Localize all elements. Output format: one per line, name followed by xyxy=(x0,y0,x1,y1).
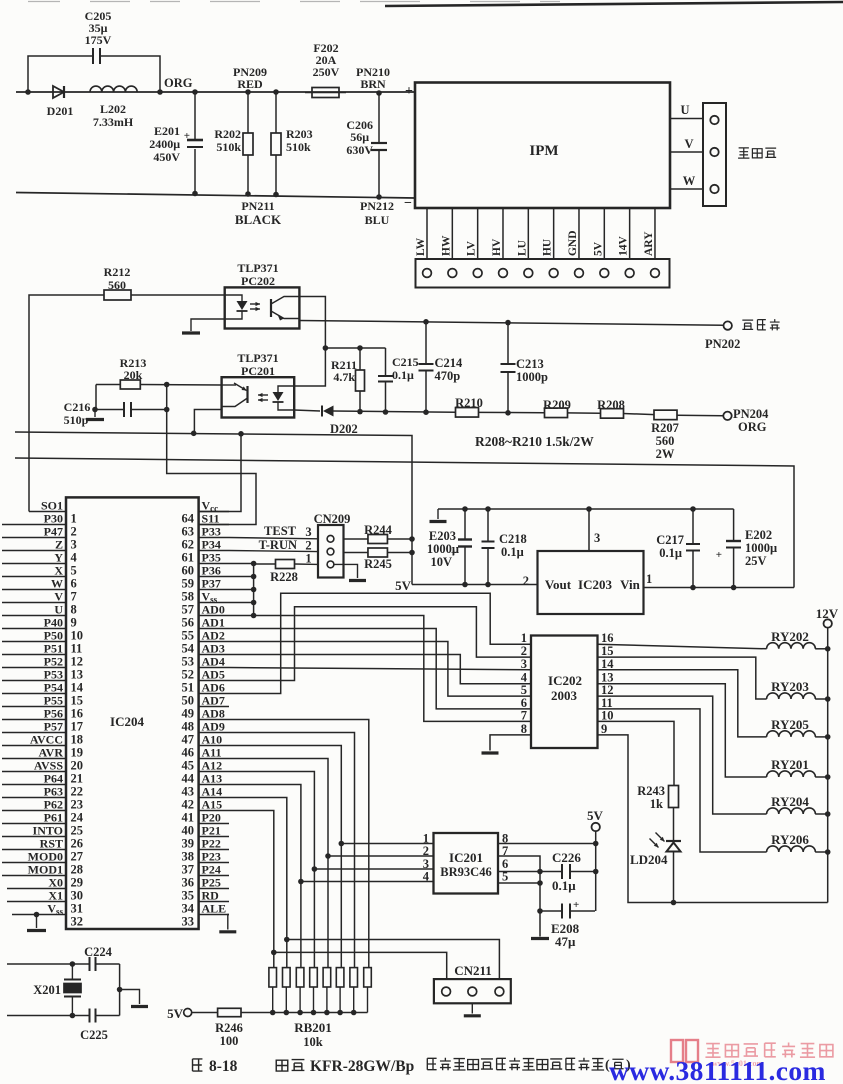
svg-text:S11: S11 xyxy=(202,512,220,526)
svg-text:C216: C216 xyxy=(64,400,91,414)
svg-text:IC204: IC204 xyxy=(110,714,144,729)
svg-text:PN212: PN212 xyxy=(360,199,394,213)
svg-text:C226: C226 xyxy=(552,850,581,865)
svg-text:P47: P47 xyxy=(44,525,63,539)
svg-text:HV: HV xyxy=(491,238,503,256)
svg-text:510p: 510p xyxy=(64,413,89,427)
svg-text:58: 58 xyxy=(182,590,195,604)
svg-text:47μ: 47μ xyxy=(555,934,576,949)
svg-text:ORG: ORG xyxy=(164,76,193,90)
svg-text:V: V xyxy=(54,590,63,604)
svg-text:10: 10 xyxy=(71,629,84,643)
svg-text:GND: GND xyxy=(567,230,579,256)
svg-text:C214: C214 xyxy=(435,356,464,370)
svg-text:HW: HW xyxy=(440,235,452,256)
svg-text:P64: P64 xyxy=(44,772,63,786)
svg-text:L202: L202 xyxy=(100,102,126,116)
svg-text:34: 34 xyxy=(182,902,195,916)
svg-text:470p: 470p xyxy=(435,369,461,383)
svg-text:3: 3 xyxy=(305,525,311,539)
svg-text:P54: P54 xyxy=(44,681,63,695)
svg-text:450V: 450V xyxy=(153,150,180,164)
svg-text:20: 20 xyxy=(71,759,84,773)
svg-text:INTO: INTO xyxy=(33,824,63,838)
svg-text:29: 29 xyxy=(71,876,84,890)
svg-text:21: 21 xyxy=(71,772,84,786)
svg-text:P23: P23 xyxy=(202,850,221,864)
svg-text:IC202: IC202 xyxy=(548,673,582,688)
svg-text:2: 2 xyxy=(71,525,77,539)
svg-text:250V: 250V xyxy=(313,65,340,79)
svg-text:R208: R208 xyxy=(597,398,625,412)
svg-text:16: 16 xyxy=(71,707,84,721)
svg-text:X: X xyxy=(54,564,63,578)
svg-text:P21: P21 xyxy=(202,824,221,838)
svg-text:0.1μ: 0.1μ xyxy=(659,546,682,560)
svg-text:52: 52 xyxy=(182,668,195,682)
svg-text:48: 48 xyxy=(182,720,195,734)
svg-text:37: 37 xyxy=(182,863,195,877)
svg-text:24: 24 xyxy=(71,811,84,825)
svg-text:LW: LW xyxy=(415,237,427,256)
svg-text:9: 9 xyxy=(71,616,77,630)
svg-text:P20: P20 xyxy=(202,811,221,825)
svg-text:C215: C215 xyxy=(392,355,419,369)
svg-text:7: 7 xyxy=(521,708,527,722)
svg-text:33: 33 xyxy=(182,915,195,929)
svg-text:P51: P51 xyxy=(44,642,63,656)
svg-text:0.1μ: 0.1μ xyxy=(501,545,524,559)
svg-text:2003: 2003 xyxy=(551,688,578,703)
svg-text:40: 40 xyxy=(182,824,195,838)
svg-text:PC202: PC202 xyxy=(241,274,275,288)
svg-text:3: 3 xyxy=(594,531,600,545)
svg-text:30: 30 xyxy=(71,889,84,903)
svg-text:4: 4 xyxy=(71,551,78,565)
svg-text:CN211: CN211 xyxy=(454,963,492,978)
svg-text:P63: P63 xyxy=(44,785,63,799)
svg-text:35: 35 xyxy=(182,889,195,903)
svg-text:P61: P61 xyxy=(44,811,63,825)
svg-text:2: 2 xyxy=(523,574,529,588)
svg-text:TLP371: TLP371 xyxy=(237,351,278,365)
svg-text:25V: 25V xyxy=(745,554,767,568)
svg-text:14: 14 xyxy=(601,657,614,671)
svg-text:A10: A10 xyxy=(202,733,223,747)
svg-text:R246: R246 xyxy=(215,1021,243,1035)
svg-text:P50: P50 xyxy=(44,629,63,643)
svg-text:Vin: Vin xyxy=(620,577,641,592)
svg-text:V: V xyxy=(684,137,693,151)
svg-text:SO1: SO1 xyxy=(41,499,63,513)
svg-text:R203: R203 xyxy=(286,127,313,141)
svg-text:50: 50 xyxy=(182,694,195,708)
svg-text:45: 45 xyxy=(182,759,195,773)
svg-text:25: 25 xyxy=(71,824,84,838)
svg-text:P33: P33 xyxy=(202,525,221,539)
svg-text:IC201: IC201 xyxy=(449,850,483,865)
svg-text:P25: P25 xyxy=(202,876,221,890)
svg-text:C218: C218 xyxy=(499,532,527,546)
svg-text:PN202: PN202 xyxy=(705,337,740,351)
svg-text:LD204: LD204 xyxy=(630,852,668,867)
svg-text:A12: A12 xyxy=(202,759,223,773)
svg-text:8: 8 xyxy=(71,603,77,617)
svg-text:P35: P35 xyxy=(202,551,221,565)
svg-text:IPM: IPM xyxy=(529,143,558,159)
svg-text:1000μ: 1000μ xyxy=(427,542,459,556)
svg-text:100: 100 xyxy=(220,1034,239,1048)
svg-text:MOD1: MOD1 xyxy=(28,863,63,877)
svg-text:R207: R207 xyxy=(651,421,679,435)
svg-text:P52: P52 xyxy=(44,655,63,669)
svg-text:AD3: AD3 xyxy=(202,642,225,656)
svg-text:51: 51 xyxy=(182,681,195,695)
svg-text:47: 47 xyxy=(182,733,195,747)
svg-text:Z: Z xyxy=(55,538,63,552)
svg-text:64: 64 xyxy=(182,512,195,526)
svg-text:P24: P24 xyxy=(202,863,221,877)
svg-text:W: W xyxy=(683,174,696,188)
svg-text:AD5: AD5 xyxy=(202,668,225,682)
svg-text:W: W xyxy=(51,577,63,591)
svg-text:1000p: 1000p xyxy=(516,370,548,384)
svg-text:1: 1 xyxy=(521,631,527,645)
svg-text:31: 31 xyxy=(71,902,84,916)
svg-text:MOD0: MOD0 xyxy=(28,850,63,864)
svg-text:ALE: ALE xyxy=(202,902,227,916)
svg-text:RY206: RY206 xyxy=(771,832,809,847)
svg-text:12V: 12V xyxy=(816,606,839,621)
svg-text:560: 560 xyxy=(656,434,675,448)
svg-text:RY202: RY202 xyxy=(771,629,809,644)
svg-text:8-18: 8-18 xyxy=(209,1058,238,1075)
svg-text:1k: 1k xyxy=(650,797,663,811)
svg-text:R210: R210 xyxy=(455,396,483,410)
svg-text:20k: 20k xyxy=(124,368,143,382)
svg-text:P40: P40 xyxy=(44,616,63,630)
svg-text:3: 3 xyxy=(521,657,527,671)
svg-text:R245: R245 xyxy=(364,557,392,571)
svg-text:630V: 630V xyxy=(346,143,373,157)
svg-text:BLU: BLU xyxy=(365,213,390,227)
svg-text:39: 39 xyxy=(182,837,195,851)
svg-text:Vout: Vout xyxy=(545,577,572,592)
svg-text:TEST: TEST xyxy=(264,524,297,538)
svg-text:46: 46 xyxy=(182,746,195,760)
svg-text:E202: E202 xyxy=(745,528,772,542)
svg-text:P53: P53 xyxy=(44,668,63,682)
svg-text:C213: C213 xyxy=(516,357,544,371)
svg-text:5V: 5V xyxy=(592,241,604,256)
svg-text:R209: R209 xyxy=(543,398,571,412)
svg-text:BLACK: BLACK xyxy=(235,212,282,227)
svg-text:R208~R210 1.5k/2W: R208~R210 1.5k/2W xyxy=(475,434,594,449)
svg-text:Y: Y xyxy=(54,551,63,565)
svg-text:175V: 175V xyxy=(85,33,112,47)
svg-text:43: 43 xyxy=(182,785,195,799)
svg-text:P55: P55 xyxy=(44,694,63,708)
svg-text:AVR: AVR xyxy=(39,746,64,760)
svg-text:62: 62 xyxy=(182,538,195,552)
svg-text:63: 63 xyxy=(182,525,195,539)
svg-text:AD8: AD8 xyxy=(202,707,225,721)
svg-text:P57: P57 xyxy=(44,720,63,734)
svg-text:U: U xyxy=(54,603,63,617)
svg-text:AVCC: AVCC xyxy=(30,733,63,747)
svg-text:7: 7 xyxy=(71,590,77,604)
svg-text:56: 56 xyxy=(182,616,195,630)
svg-text:RD: RD xyxy=(202,889,220,903)
svg-text:IC203: IC203 xyxy=(578,577,612,592)
svg-text:T-RUN: T-RUN xyxy=(259,538,297,552)
svg-text:16: 16 xyxy=(601,631,614,645)
svg-text:6: 6 xyxy=(71,577,77,591)
svg-text:P56: P56 xyxy=(44,707,63,721)
svg-text:C225: C225 xyxy=(80,1028,108,1042)
svg-text:−: − xyxy=(404,196,412,211)
svg-text:RY205: RY205 xyxy=(771,717,809,732)
svg-text:AD4: AD4 xyxy=(202,655,225,669)
svg-text:2W: 2W xyxy=(656,447,675,461)
svg-text:41: 41 xyxy=(182,811,195,825)
svg-text:AD1: AD1 xyxy=(202,616,225,630)
svg-text:17: 17 xyxy=(71,720,84,734)
svg-text:ORG: ORG xyxy=(738,420,767,434)
svg-text:10k: 10k xyxy=(303,1035,323,1049)
svg-text:P34: P34 xyxy=(202,538,221,552)
svg-text:D202: D202 xyxy=(330,422,358,436)
svg-text:A13: A13 xyxy=(202,772,223,786)
svg-text:42: 42 xyxy=(182,798,195,812)
svg-text:ARY: ARY xyxy=(643,231,655,256)
svg-text:U: U xyxy=(680,103,689,117)
svg-text:RY204: RY204 xyxy=(771,794,809,809)
svg-text:E201: E201 xyxy=(154,124,180,138)
svg-text:28: 28 xyxy=(71,863,84,877)
svg-text:AVSS: AVSS xyxy=(34,759,63,773)
svg-text:15: 15 xyxy=(71,694,84,708)
svg-text:P62: P62 xyxy=(44,798,63,812)
svg-text:18: 18 xyxy=(71,733,84,747)
svg-text:44: 44 xyxy=(182,772,195,786)
svg-text:61: 61 xyxy=(182,551,195,565)
svg-text:PN211: PN211 xyxy=(241,199,274,213)
svg-text:P22: P22 xyxy=(202,837,221,851)
svg-text:38: 38 xyxy=(182,850,195,864)
svg-text:LV: LV xyxy=(466,240,478,256)
svg-text:HU: HU xyxy=(542,238,554,256)
svg-text:5: 5 xyxy=(71,564,77,578)
svg-text:X1: X1 xyxy=(48,889,63,903)
svg-text:C217: C217 xyxy=(656,533,684,547)
svg-text:11: 11 xyxy=(71,642,83,656)
svg-text:27: 27 xyxy=(71,850,84,864)
svg-text:E203: E203 xyxy=(429,529,456,543)
svg-text:56μ: 56μ xyxy=(350,130,369,144)
svg-text:14V: 14V xyxy=(618,236,630,257)
svg-text:X0: X0 xyxy=(48,876,63,890)
svg-text:26: 26 xyxy=(71,837,84,851)
svg-text:60: 60 xyxy=(182,564,195,578)
svg-text:59: 59 xyxy=(182,577,195,591)
svg-text:2: 2 xyxy=(305,539,311,553)
svg-text:AD7: AD7 xyxy=(202,694,225,708)
svg-text:32: 32 xyxy=(71,915,84,929)
svg-text:RB201: RB201 xyxy=(294,1020,332,1035)
svg-text:+: + xyxy=(184,130,190,142)
svg-text:10: 10 xyxy=(601,708,614,722)
svg-text:13: 13 xyxy=(71,668,84,682)
svg-text:A11: A11 xyxy=(202,746,222,760)
svg-text:R202: R202 xyxy=(214,127,241,141)
svg-text:0.1μ: 0.1μ xyxy=(552,878,576,893)
svg-text:12: 12 xyxy=(71,655,84,669)
svg-text:4.7k: 4.7k xyxy=(333,370,355,384)
svg-text:A14: A14 xyxy=(202,785,223,799)
svg-text:A15: A15 xyxy=(202,798,223,812)
svg-text:AD9: AD9 xyxy=(202,720,225,734)
svg-text:AD6: AD6 xyxy=(202,681,225,695)
svg-text:LU: LU xyxy=(516,239,528,256)
svg-text:+: + xyxy=(405,84,413,99)
svg-text:X201: X201 xyxy=(33,983,61,997)
svg-text:510k: 510k xyxy=(286,140,311,154)
svg-text:57: 57 xyxy=(182,603,195,617)
svg-text:CN209: CN209 xyxy=(314,512,351,526)
svg-text:1: 1 xyxy=(305,552,311,566)
svg-text:1000μ: 1000μ xyxy=(745,541,777,555)
svg-text:P30: P30 xyxy=(44,512,63,526)
svg-text:R244: R244 xyxy=(364,523,393,537)
svg-text:49: 49 xyxy=(182,707,195,721)
svg-text:23: 23 xyxy=(71,798,84,812)
svg-text:22: 22 xyxy=(71,785,84,799)
svg-text:1: 1 xyxy=(646,572,652,586)
svg-text:560: 560 xyxy=(108,278,126,292)
svg-text:+: + xyxy=(573,899,579,911)
svg-text:5V: 5V xyxy=(587,808,604,823)
svg-text:P36: P36 xyxy=(202,564,221,578)
svg-text:2400μ: 2400μ xyxy=(149,137,180,151)
svg-text:D201: D201 xyxy=(47,104,74,118)
svg-text:AD2: AD2 xyxy=(202,629,225,643)
svg-text:BR93C46: BR93C46 xyxy=(440,865,491,879)
svg-text:5V: 5V xyxy=(395,578,412,593)
svg-text:RY201: RY201 xyxy=(771,757,809,772)
svg-text:BRN: BRN xyxy=(360,77,386,91)
svg-text:14: 14 xyxy=(71,681,84,695)
svg-text:36: 36 xyxy=(182,876,195,890)
svg-text:0.1μ: 0.1μ xyxy=(392,368,414,382)
svg-text:R243: R243 xyxy=(637,784,665,798)
svg-text:1: 1 xyxy=(71,512,77,526)
svg-text:TLP371: TLP371 xyxy=(237,261,278,275)
svg-text:RST: RST xyxy=(40,837,63,851)
svg-text:5V: 5V xyxy=(167,1006,184,1021)
svg-text:10V: 10V xyxy=(430,555,452,569)
svg-text:PN204: PN204 xyxy=(733,407,769,421)
svg-text:9: 9 xyxy=(601,722,607,736)
svg-text:510k: 510k xyxy=(216,140,241,154)
svg-text:+: + xyxy=(716,549,722,561)
svg-text:8: 8 xyxy=(521,722,527,736)
svg-text:www.3811111.com: www.3811111.com xyxy=(609,1055,826,1084)
svg-text:R212: R212 xyxy=(104,265,131,279)
svg-text:7.33mH: 7.33mH xyxy=(93,115,134,129)
svg-text:RY203: RY203 xyxy=(771,679,809,694)
svg-text:KFR-28GW/Bp: KFR-28GW/Bp xyxy=(310,1058,414,1075)
svg-text:PC201: PC201 xyxy=(241,364,275,378)
svg-text:19: 19 xyxy=(71,746,84,760)
svg-text:C224: C224 xyxy=(84,945,113,959)
svg-text:54: 54 xyxy=(182,642,195,656)
svg-text:53: 53 xyxy=(182,655,195,669)
svg-text:RED: RED xyxy=(237,77,263,91)
svg-text:3: 3 xyxy=(71,538,77,552)
svg-text:AD0: AD0 xyxy=(202,603,225,617)
svg-text:R228: R228 xyxy=(270,570,298,584)
svg-text:55: 55 xyxy=(182,629,195,643)
svg-text:P37: P37 xyxy=(202,577,221,591)
